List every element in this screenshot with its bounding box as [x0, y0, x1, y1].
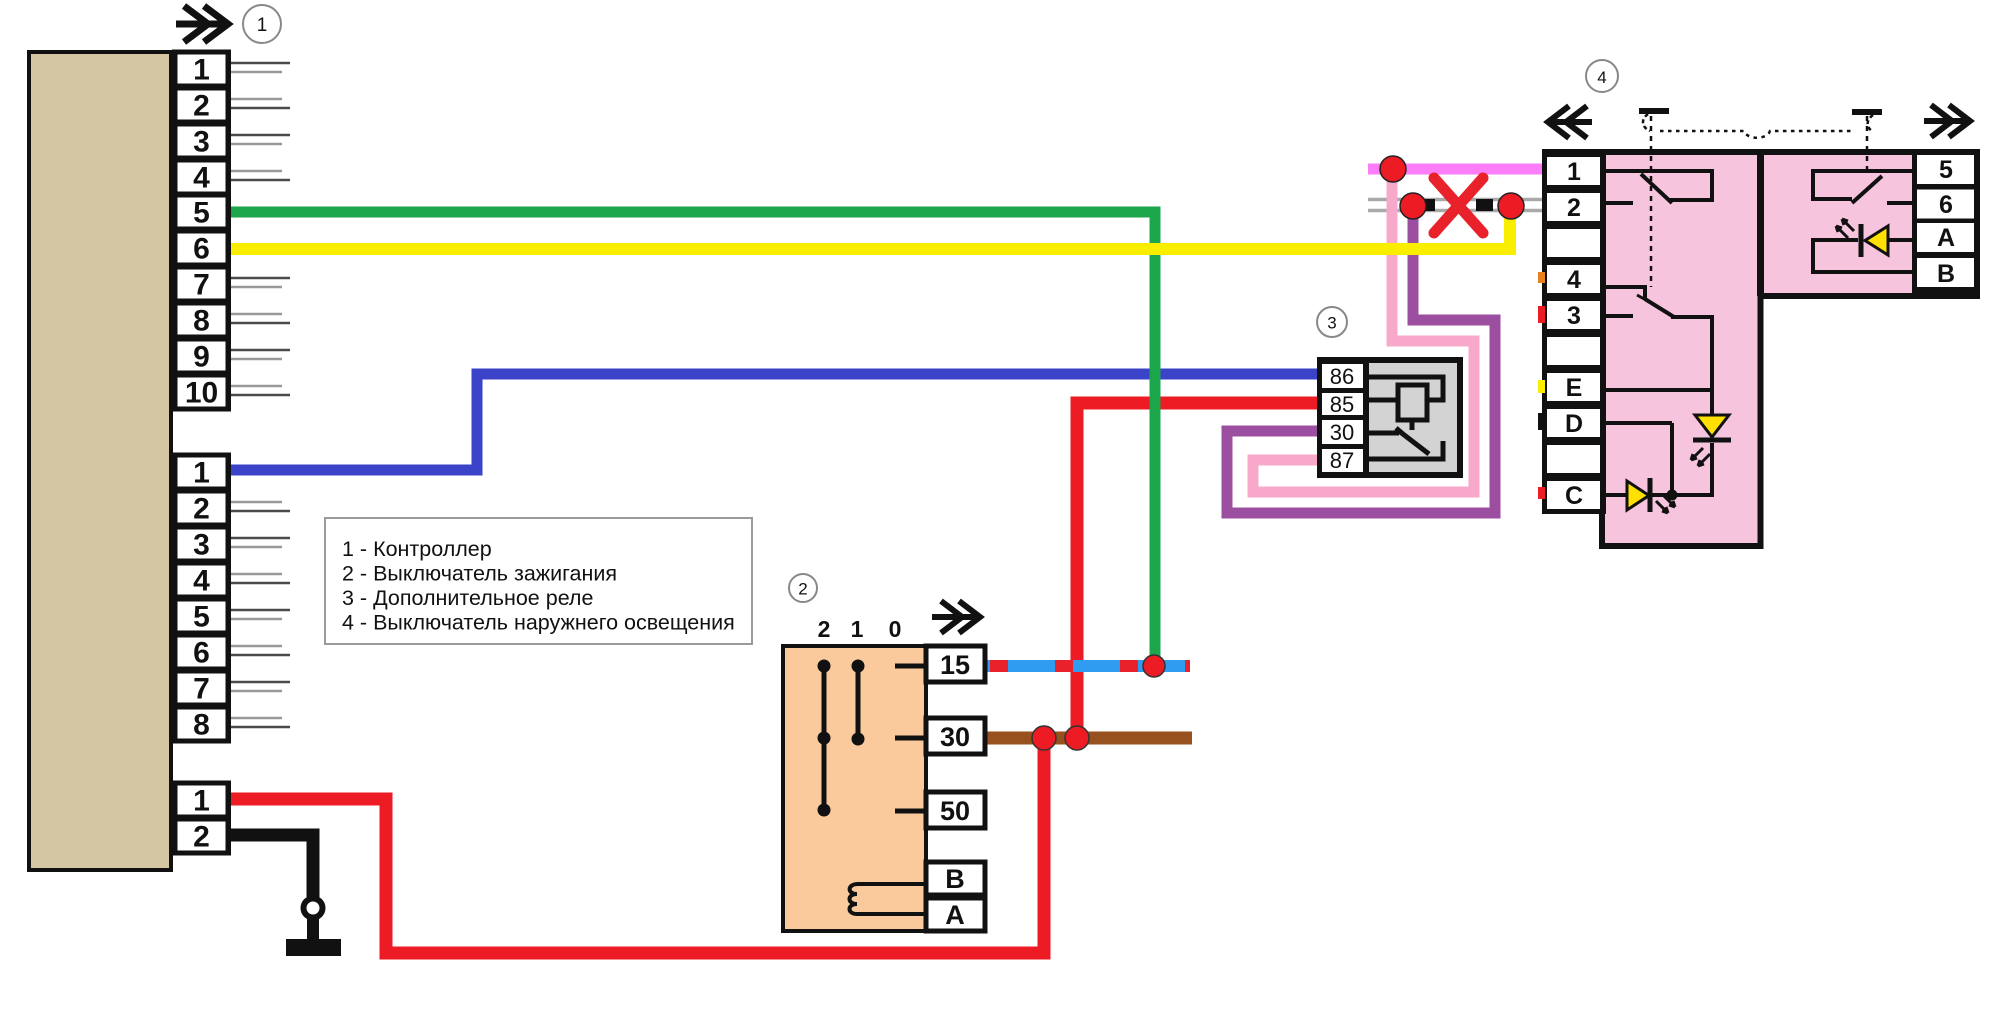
svg-text:10: 10	[185, 377, 218, 410]
ignition pin box 50	[926, 792, 985, 828]
svg-text:6: 6	[1939, 191, 1953, 219]
svg-text:1: 1	[193, 785, 210, 818]
controller U1 body (tan)	[29, 52, 171, 870]
wire from D rail down to C rail	[1670, 423, 1674, 495]
junction: red dot on brown wire right	[1065, 726, 1089, 750]
right pin column of switch 4	[1912, 149, 1980, 299]
mechanical dashed link right vertical	[1866, 116, 1869, 176]
svg-text:3: 3	[193, 529, 210, 562]
svg-text:4: 4	[193, 565, 210, 598]
svg-text:8: 8	[193, 305, 210, 338]
ignition contact stub pin 50	[895, 809, 928, 814]
pin A stub to LED3	[1888, 238, 1916, 242]
LED2 light arrows	[1656, 495, 1675, 513]
svg-text:2: 2	[193, 821, 210, 854]
mechanical dashed link left vertical	[1650, 116, 1653, 287]
wire: gray cut wire into pin 2 of switch 4 (upper line)	[1368, 198, 1544, 202]
mechanical linkage T bar left	[1639, 108, 1669, 114]
stub wire red at pin C	[1538, 487, 1545, 499]
wire: yellow wire controller pin 6 to cut-wire right junction	[228, 214, 1510, 249]
pin D rail	[1600, 421, 1672, 425]
svg-text:B: B	[945, 864, 965, 894]
LED2 cathode bar	[1648, 478, 1653, 512]
junction: red dot on striped wire (green wire end)	[1143, 655, 1165, 677]
circled label 2	[789, 574, 817, 602]
svg-text:B: B	[1937, 260, 1955, 288]
arrow symbol right of switch 4 (>>-)	[1924, 105, 1970, 137]
wire: green wire controller pin 5 down to striped wire	[228, 212, 1155, 661]
svg-text:2: 2	[1567, 194, 1581, 222]
ignition contact stub pin 15	[895, 664, 928, 669]
svg-text:0: 0	[889, 616, 902, 642]
svg-text:5: 5	[193, 601, 210, 634]
LED1 cathode bar	[1693, 438, 1731, 443]
relay K1 outer box	[1317, 357, 1463, 478]
LED2 triangle (right)	[1627, 481, 1649, 510]
svg-text:85: 85	[1330, 392, 1354, 417]
pin E rail	[1600, 388, 1712, 392]
LED1 light arrows	[1691, 448, 1710, 466]
svg-text:86: 86	[1330, 364, 1354, 389]
switch contact 1-2 bracket	[1600, 171, 1712, 200]
svg-text:6: 6	[193, 233, 210, 266]
pin C rail	[1600, 493, 1714, 497]
svg-text:2: 2	[193, 493, 210, 526]
ignition contact bar column 2	[822, 666, 827, 810]
switch contact 4-3 entry	[1600, 287, 1645, 298]
relay pin box 85	[1322, 393, 1363, 415]
light switch S2 body (pink)	[1602, 152, 1977, 546]
svg-text:A: A	[1937, 224, 1955, 252]
svg-text:2: 2	[798, 580, 807, 599]
arrow symbol top-left (>>-)	[176, 6, 228, 42]
ignition pin box A	[926, 898, 985, 931]
left pin column of switch 4	[1542, 149, 1606, 514]
relay internal: coil rectangle	[1398, 385, 1427, 420]
svg-text:7: 7	[193, 269, 210, 302]
ignition coil symbol between B and A	[850, 884, 927, 914]
ignition contact bar column 1	[856, 666, 861, 739]
wire from LED1 to C rail	[1710, 443, 1714, 495]
relay gray panel	[1369, 363, 1457, 472]
wire: blue wire controller pin 1 to relay pin 86	[228, 374, 1320, 470]
svg-text:2: 2	[818, 616, 831, 642]
ground: circle of ground symbol	[304, 899, 323, 918]
svg-text:2 - Выключатель зажигания: 2 - Выключатель зажигания	[342, 562, 617, 586]
svg-text:1 - Контроллер: 1 - Контроллер	[342, 537, 492, 561]
LED3 light arrows	[1836, 219, 1854, 238]
relay pin box 86	[1322, 364, 1363, 388]
pin 3 stub line	[1600, 314, 1633, 318]
mechanical linkage dotted horizontal with dip	[1660, 131, 1852, 138]
svg-text:87: 87	[1330, 448, 1354, 473]
svg-text:4: 4	[1597, 68, 1606, 87]
ignition switch S1 body (orange)	[783, 646, 926, 931]
svg-text:5: 5	[193, 197, 210, 230]
pin 2 stub line	[1600, 201, 1633, 205]
svg-text:15: 15	[940, 650, 970, 680]
LED3 cathode bar	[1859, 224, 1864, 257]
svg-text:1: 1	[257, 15, 268, 36]
red X mark over cut wire	[1434, 178, 1483, 233]
svg-text:3: 3	[1567, 302, 1581, 330]
svg-text:3: 3	[1327, 314, 1336, 333]
wire: magenta wire to pin 1 of switch 4	[1368, 164, 1544, 175]
arrow symbol at ignition (>>-)	[932, 601, 980, 633]
svg-text:30: 30	[1330, 420, 1354, 445]
pin 6 stub line	[1887, 201, 1916, 205]
junction dot on C rail	[1667, 490, 1678, 501]
bracket from blade 4-3 down to E rail	[1671, 317, 1712, 390]
LED3 wire to pin B	[1813, 240, 1916, 272]
ground: stub below circle	[307, 917, 319, 940]
svg-text:D: D	[1565, 410, 1583, 438]
mechanical linkage T bar right	[1852, 109, 1882, 115]
switch contact 4-3 barb	[1637, 295, 1646, 300]
circled label 4	[1586, 60, 1618, 92]
LED1 triangle (down)	[1695, 415, 1729, 437]
wire: brown wire from ignition pin 30	[985, 732, 1192, 745]
wire: black tick segment 1 on cut wire	[1422, 199, 1435, 211]
junction: red dot on brown wire left	[1032, 726, 1056, 750]
wire: red wire controller bottom pin 1 to brown junction	[228, 738, 1044, 953]
svg-text:4: 4	[193, 162, 210, 195]
controller connector group 1 (pins 1-10)	[172, 50, 231, 412]
arrow symbol left of switch 4 (-<<)	[1548, 106, 1592, 138]
svg-text:30: 30	[940, 722, 970, 752]
wire: black wire controller bottom pin 2	[228, 835, 313, 897]
relay internal: armature stub below coil	[1410, 420, 1415, 430]
svg-text:1: 1	[1567, 158, 1581, 186]
junction: red dot on magenta wire	[1380, 156, 1406, 182]
svg-text:C: C	[1565, 482, 1583, 510]
switch contact 5-6 blade	[1852, 176, 1882, 203]
stub wire yellow at pin E	[1538, 380, 1545, 393]
svg-text:6: 6	[193, 637, 210, 670]
svg-text:1: 1	[193, 54, 210, 87]
LED3 triangle (left)	[1865, 226, 1888, 255]
ignition pin box 15	[926, 646, 985, 682]
relay pin box 30	[1322, 420, 1363, 444]
wire: pink wire from magenta junction to relay pin 87	[1253, 170, 1474, 492]
svg-text:8: 8	[193, 709, 210, 742]
wire: red wire from brown junction to relay pin 85	[1077, 403, 1320, 738]
wire: gray cut wire into pin 2 of switch 4 (lower line)	[1368, 209, 1544, 213]
relay internal: 85 rail to coil	[1369, 398, 1398, 403]
svg-text:4: 4	[1567, 266, 1581, 294]
relay internal: 86 rail to coil	[1369, 377, 1443, 400]
svg-text:A: A	[945, 900, 965, 930]
svg-text:50: 50	[940, 796, 970, 826]
relay internal: 87 rail with contact	[1369, 441, 1443, 459]
svg-text:2: 2	[193, 90, 210, 123]
svg-text:1: 1	[851, 616, 864, 642]
wire from E rail to LED1	[1710, 390, 1714, 415]
junction: red dot on cut wire left	[1400, 193, 1426, 219]
svg-text:1: 1	[193, 457, 210, 490]
svg-text:4 - Выключатель наружнего осве: 4 - Выключатель наружнего освещения	[342, 611, 735, 635]
mechanical linkage left curl	[1643, 114, 1650, 131]
ground: ground bar	[286, 939, 341, 956]
junction: red dot on cut wire right (yellow wire end)	[1498, 193, 1524, 219]
controller connector group 3 (pins 1-2)	[172, 781, 231, 856]
light switch internal divider	[1757, 152, 1764, 296]
ignition pin box B	[926, 862, 985, 895]
wire: blue/red striped wire red dashes	[990, 660, 1190, 672]
switch contact 4-3 blade	[1645, 299, 1674, 317]
ignition pin box 30	[926, 718, 985, 754]
wire: purple wire from cut-wire junction to relay pin 30	[1227, 207, 1495, 513]
relay internal: 30 rail	[1369, 431, 1399, 436]
svg-text:9: 9	[193, 341, 210, 374]
circled label 3	[1317, 307, 1347, 337]
relay pin box 87	[1322, 449, 1363, 472]
switch contact 1-2 blade	[1641, 174, 1672, 203]
stub wire red at pin 3	[1538, 306, 1545, 323]
legend box frame	[325, 518, 752, 644]
svg-text:7: 7	[193, 673, 210, 706]
stub wire orange at pin 4	[1538, 272, 1545, 283]
svg-text:3 - Дополнительное реле: 3 - Дополнительное реле	[342, 586, 593, 610]
wire: black tick segment 2 on cut wire	[1476, 199, 1493, 211]
controller connector group 2 (pins 1-8)	[172, 453, 231, 744]
svg-text:5: 5	[1939, 156, 1953, 184]
wire: blue/red striped wire from ignition pin 15 (blue base)	[985, 660, 1190, 672]
relay internal: switch blade	[1396, 428, 1429, 454]
switch contact 5-6 bracket	[1813, 171, 1916, 199]
ignition contact stub pin 30	[895, 736, 928, 741]
mechanical linkage right curl	[1868, 115, 1873, 131]
circled label 1	[243, 5, 281, 43]
stub wire black at pin D	[1538, 413, 1545, 430]
svg-text:E: E	[1566, 374, 1583, 402]
svg-text:3: 3	[193, 126, 210, 159]
